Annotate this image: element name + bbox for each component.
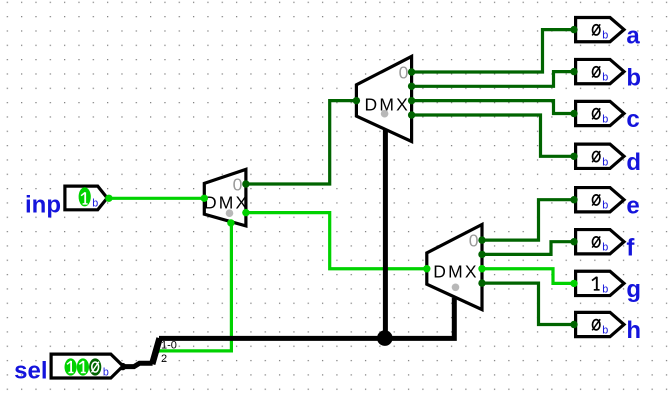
svg-text:b: b [602, 30, 608, 42]
svg-text:0: 0 [469, 231, 479, 251]
svg-text:b: b [103, 367, 109, 379]
svg-text:c: c [626, 106, 639, 133]
svg-text:g: g [626, 276, 641, 303]
svg-text:b: b [602, 325, 608, 337]
svg-text:d: d [626, 149, 641, 176]
svg-text:e: e [626, 192, 639, 219]
svg-text:a: a [626, 22, 640, 49]
svg-text:DMX: DMX [433, 261, 479, 281]
svg-text:sel: sel [14, 358, 47, 385]
svg-text:0: 0 [233, 174, 243, 194]
svg-text:2: 2 [161, 353, 167, 365]
svg-text:DMX: DMX [204, 193, 250, 213]
svg-text:b: b [626, 64, 641, 91]
svg-text:f: f [626, 234, 635, 261]
svg-text:b: b [602, 114, 608, 126]
svg-text:b: b [602, 156, 608, 168]
svg-text:b: b [602, 72, 608, 84]
svg-text:0: 0 [399, 62, 409, 82]
svg-text:b: b [602, 200, 608, 212]
svg-text:inp: inp [25, 192, 61, 219]
svg-text:b: b [92, 199, 98, 211]
svg-text:b: b [602, 242, 608, 254]
svg-text:b: b [602, 283, 608, 295]
svg-text:h: h [626, 317, 641, 344]
svg-text:1-0: 1-0 [161, 340, 177, 352]
